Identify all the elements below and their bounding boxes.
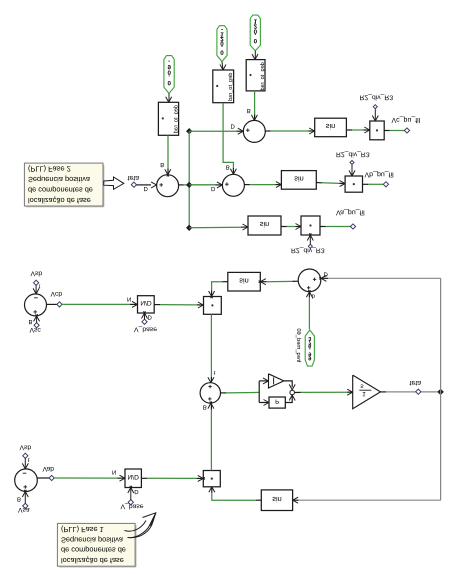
constant pill 376.99 (305, 330, 314, 366)
arrowhead into divider ND2 (120, 477, 127, 481)
node Vsb bottom (23, 453, 28, 458)
arrowhead into integrator (347, 391, 354, 395)
wire divider ND1 to mult M1 (154, 304, 160, 306)
block K2 deg_to_rad (213, 70, 234, 103)
summer S3 (298, 269, 321, 292)
svg-text:Vb_pu_fil: Vb_pu_fil (365, 170, 395, 178)
wire V_base to divider ND1 (144, 314, 146, 320)
wire summer S3 to sin mid (293, 280, 298, 282)
svg-text:B: B (203, 403, 207, 410)
wire mult M1 to summer S4 (210, 314, 212, 377)
block K3 dot (249, 74, 251, 76)
svg-text:deg_to_rad: deg_to_rad (227, 73, 234, 101)
svg-text:Sequencia positiva: Sequencia positiva (61, 535, 124, 544)
plus sign top in summer S4 (208, 386, 211, 388)
arrowhead into summer SA (151, 184, 158, 188)
svg-text:(PLL) Fase 1: (PLL) Fase 1 (61, 525, 104, 534)
multiplier M1 dot (211, 304, 213, 306)
arrowhead into summer S4 top (210, 377, 214, 384)
arrowhead into sin bottom (291, 499, 298, 503)
plus sign bottom in summer S4 (208, 398, 211, 400)
svg-text:localização de fase: localização de fase (61, 556, 124, 565)
svg-text:0: 0 (167, 79, 171, 86)
plus sign in summer S2c (33, 311, 37, 313)
multiplier M2 (203, 471, 220, 487)
wire pill -120.0 to block K2 (221, 62, 224, 70)
svg-text:D: D (231, 123, 236, 130)
comment box: (PLL) Fase 2 description (24, 163, 103, 206)
svg-text:Vab: Vab (43, 465, 55, 472)
node teta marker (131, 182, 136, 187)
multiplier row2 dot (353, 183, 355, 185)
vertical distribution wire (188, 131, 190, 228)
svg-text:de componentes de: de componentes de (61, 546, 126, 555)
divider ND2 N/D (125, 469, 141, 488)
wire sin bottom to mult M2 (256, 499, 261, 501)
plus sign in summer S1b (225, 183, 229, 185)
arrowhead into summer S2c top (35, 288, 39, 295)
svg-text:Vc_pu_fil: Vc_pu_fil (392, 116, 421, 124)
svg-text:D: D (134, 488, 139, 495)
node Vsb top (34, 280, 39, 285)
wire sin row1 to mult (346, 129, 352, 131)
node Vsa (23, 503, 28, 508)
svg-text:sin: sin (294, 175, 303, 184)
svg-text:teta: teta (410, 379, 422, 386)
svg-text:sin: sin (260, 220, 269, 229)
arrowhead into mult M1 (198, 304, 205, 308)
node R2_div_R3 row1 (373, 105, 377, 109)
svg-text:N/D: N/D (140, 299, 152, 306)
arrowhead into mult row3 (296, 226, 303, 230)
plus sign right in summer S3 (313, 278, 316, 280)
svg-text:D: D (144, 185, 149, 192)
arrowhead into mult row1 top (374, 116, 378, 123)
svg-text:Sequencia positiva: Sequencia positiva (28, 175, 91, 184)
svg-text:sin: sin (239, 277, 248, 286)
wire pill 376.99 to summer S3 (308, 297, 310, 329)
wire summer S1c to sin block (265, 130, 270, 132)
wire V_base to divider ND2 (130, 488, 132, 500)
plus sign in summer S2a (24, 486, 28, 488)
wire R2_div_R3 to mult row1 (374, 109, 376, 120)
summer SA (teta - 90) (157, 175, 179, 197)
arrowhead into summer S3 bottom (308, 290, 312, 297)
sum ring (290, 390, 295, 395)
svg-text:teta: teta (128, 174, 140, 181)
arrowhead into divider ND1 bottom (144, 311, 148, 318)
junction at distribution top (186, 128, 192, 134)
svg-text:deg_to_rad: deg_to_rad (259, 62, 266, 90)
arrowhead into mult M2 (198, 477, 205, 481)
node Vb_pu_fil (383, 182, 388, 187)
wire R2_div_R3 to mult row2 (351, 165, 353, 175)
arrowhead into mult M2 bottom (211, 485, 215, 492)
arrowhead into sin row2 (276, 184, 283, 188)
arrowhead into summer S1b top (232, 169, 236, 176)
label 1 in P gain (273, 377, 275, 384)
wire block K3 to summer S1c (254, 91, 256, 115)
wire Vsc node to summer S2c (36, 317, 38, 323)
wire P gain to sum ring (284, 381, 292, 387)
svg-text:V_base: V_base (134, 326, 157, 333)
wire Vsb node to summer S2c (35, 285, 37, 293)
svg-text:B: B (247, 107, 251, 114)
arrowhead into mult row1 (364, 129, 371, 133)
wire block K1 to summer SA (167, 135, 169, 168)
multiplier row1 dot (376, 129, 378, 131)
minus sign in summer S2c (34, 297, 38, 299)
junction at summer SA output (186, 182, 192, 188)
arrowhead into mult M1 top (211, 291, 215, 298)
arrowhead into summer S1c (238, 130, 245, 134)
multiplier row2 (345, 176, 362, 192)
arrowhead into sin row1 (309, 130, 316, 134)
wire sum ring to integrator (295, 391, 301, 393)
svg-text:Vsb: Vsb (31, 270, 43, 277)
P gain triangle (269, 374, 284, 388)
wire I block to sum ring (285, 396, 292, 403)
wire sin mid to mult M1 (223, 281, 228, 283)
block K1 deg_to_rad (158, 102, 178, 135)
svg-text:9: 9 (308, 354, 311, 360)
plus sign in summer SA (159, 184, 163, 186)
constant pill -120.0 (217, 26, 227, 62)
node V_base 2 (128, 500, 133, 505)
summer S4 (200, 383, 220, 403)
constant pill 120.0 (250, 15, 260, 51)
multiplier row3 (301, 216, 320, 235)
svg-text:R2_div_R3: R2_div_R3 (336, 151, 370, 158)
arrowhead into summer S2a bottom (24, 490, 28, 497)
svg-text:Vcb: Vcb (51, 290, 63, 297)
block sin row3 (248, 216, 281, 235)
callout arrow from box 1 (104, 177, 124, 189)
wire PI input split (258, 381, 260, 403)
comment box: (PLL) Fase 1 description (57, 523, 135, 566)
summer S1c (+120) (243, 120, 265, 142)
wire divider ND2 to mult M2 (141, 477, 147, 479)
arrowhead into summer SA top (167, 169, 171, 176)
wire summer S2a output (37, 477, 49, 479)
plus sign bottom in summer S3 (307, 287, 310, 289)
arrowhead into sum ring top (291, 384, 295, 391)
arrowhead into summer S3 right (319, 277, 326, 281)
junction teta feedback (438, 389, 444, 395)
arrowhead into divider ND1 (132, 303, 139, 307)
wire block K2 to summer S1b (223, 103, 233, 168)
node Vc_pu_fil (404, 128, 409, 133)
I block (269, 397, 285, 408)
wire summer S2c output (47, 303, 58, 305)
wire into I block (259, 402, 268, 404)
junction at row3 takeoff (186, 225, 192, 231)
svg-text:B: B (29, 318, 33, 325)
svg-text:N: N (112, 469, 116, 476)
svg-text:D: D (324, 270, 329, 277)
wire to sin row3 (189, 226, 241, 229)
svg-text:N/D: N/D (128, 473, 140, 480)
arrowhead into mult row2 (340, 183, 347, 187)
svg-text:sin: sin (272, 495, 281, 504)
wire to summer S1b (189, 184, 215, 186)
svg-text:P: P (275, 398, 279, 405)
wire summer SA output (179, 184, 184, 186)
wire teta to summer SA (137, 184, 152, 186)
node V_base 1 (142, 319, 147, 324)
svg-text:V_base: V_base (121, 503, 144, 510)
node Va_pu_fil (350, 224, 355, 229)
arrowhead into sin mid (259, 281, 266, 285)
multiplier row3 dot (309, 224, 311, 226)
multiplier M1 (204, 297, 222, 315)
summer S2a (Va - Vb) (15, 469, 38, 492)
arrowhead into P gain (263, 380, 270, 384)
wire summer S4 output (221, 392, 227, 394)
svg-text:0: 0 (220, 49, 224, 56)
multiplier row1 (370, 121, 384, 140)
wire Vcb to divider ND1 (62, 303, 130, 305)
svg-text:Vsc: Vsc (30, 326, 42, 333)
block K1 dot (162, 117, 164, 119)
svg-text:B: B (226, 164, 230, 171)
integrator fraction bar (359, 389, 371, 391)
wire integrator to teta node (381, 391, 387, 393)
constant pill -90.0 (164, 56, 174, 94)
wire to summer S1c (189, 130, 236, 132)
feedback wire to sin bottom (299, 499, 441, 501)
svg-text:sin: sin (326, 122, 335, 131)
svg-text:B: B (17, 495, 21, 502)
node Vab (49, 475, 54, 480)
arrowhead into summer S1b (217, 184, 224, 188)
svg-text:1: 1 (362, 390, 366, 397)
wire Vab to divider ND2 (54, 477, 117, 479)
wire mult M2 to summer S4 (210, 410, 212, 471)
node R2_div_R3 row3 (308, 244, 312, 248)
arrowhead into block K3 (254, 54, 258, 61)
callout arrow from box 2 (128, 513, 156, 538)
svg-text:B: B (160, 161, 164, 168)
svg-text:Va_pu_fil: Va_pu_fil (336, 209, 365, 217)
arrowhead into I block (264, 402, 271, 406)
wire pill -90.0 to block K1 (168, 94, 170, 102)
block sin mid (228, 272, 260, 291)
svg-text:0: 0 (254, 37, 258, 44)
arrowhead into divider ND2 bottom (130, 486, 134, 493)
summer S2c (Vc - Vb) (25, 294, 47, 316)
block sin bottom (261, 490, 292, 511)
wire sin row2 to mult row2 (316, 182, 322, 184)
block sin row2 (281, 171, 316, 190)
svg-text:N: N (127, 295, 131, 302)
node Vcb (57, 302, 62, 307)
wire mult row3 to output (320, 226, 326, 228)
wire into P gain (259, 380, 268, 382)
wire Vsa to summer S2a (24, 492, 26, 503)
wire feedback into summer S3 (328, 277, 441, 279)
wire mult row2 to output (363, 183, 369, 185)
arrowhead into sum ring bottom (291, 393, 295, 400)
block K3 deg_to_rad (246, 60, 265, 91)
svg-text:Vsb: Vsb (20, 443, 32, 450)
divider ND1 N/D (138, 296, 155, 313)
integrator triangle (353, 375, 381, 409)
arrowhead into summer S4 bottom (210, 401, 214, 408)
svg-text:de componentes de: de componentes de (28, 185, 93, 194)
summer S1b (-120) (222, 174, 244, 196)
wire R2_div_R3 to mult row3 (309, 236, 311, 245)
block K2 dot (216, 85, 218, 87)
arrowhead into block K1 (168, 97, 172, 104)
arrowhead into summer S2a top (24, 463, 28, 470)
svg-text:Vsa: Vsa (18, 506, 30, 513)
feedback wire vertical (440, 278, 442, 500)
node teta output (416, 389, 421, 394)
svg-text:deg_to_rad: deg_to_rad (173, 105, 180, 133)
node R2_div_R3 row2 (350, 161, 354, 165)
arrowhead into mult row2 top (351, 171, 355, 178)
svg-text:R2_div_R3: R2_div_R3 (360, 94, 394, 101)
plus sign in summer S1c (246, 129, 250, 131)
wire sin row3 to mult row3 (281, 226, 287, 228)
svg-text:localização de fase: localização de fase (28, 196, 91, 205)
arrowhead into mult row3 bottom (309, 233, 313, 240)
svg-text:(PLL) Fase 2: (PLL) Fase 2 (28, 165, 71, 174)
arrowhead into summer S1c top (253, 115, 257, 122)
svg-text:R2_div_R3: R2_div_R3 (291, 247, 325, 254)
minus sign in summer S2a (23, 472, 27, 474)
wire summer S1b to sin row2 (244, 184, 249, 186)
svg-text:D: D (211, 185, 216, 192)
wire pill 120.0 to block K3 (254, 51, 256, 59)
wire Vsb to summer S2a (24, 458, 26, 468)
arrowhead into sin row3 (243, 226, 250, 230)
svg-text:D: D (148, 313, 153, 320)
svg-text:freq_med_60: freq_med_60 (295, 328, 302, 362)
block sin row1 (315, 118, 347, 137)
arrowhead into summer S2c bottom (36, 314, 40, 321)
multiplier M2 dot (211, 478, 213, 480)
arrowhead into block K2 (222, 65, 226, 72)
wire mult row1 to output (384, 130, 389, 132)
node Vsc bottom (34, 323, 39, 328)
